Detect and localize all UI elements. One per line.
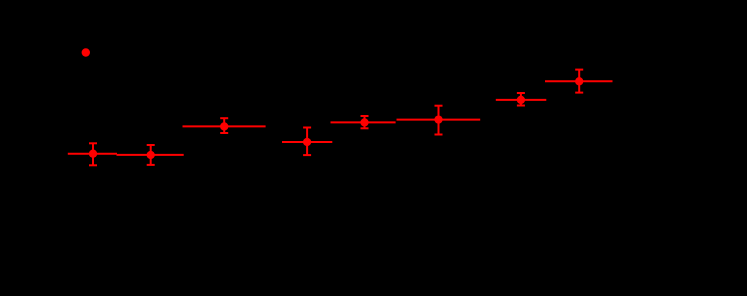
- data point 3: [183, 118, 266, 133]
- data point 6: [397, 106, 481, 135]
- data point 5: [331, 116, 396, 128]
- data point 1: [68, 143, 117, 165]
- data point 4: [282, 128, 332, 156]
- legend marker: [82, 48, 90, 56]
- data point 8: [545, 70, 613, 93]
- data point 2: [117, 145, 184, 165]
- data point 7: [496, 93, 547, 106]
